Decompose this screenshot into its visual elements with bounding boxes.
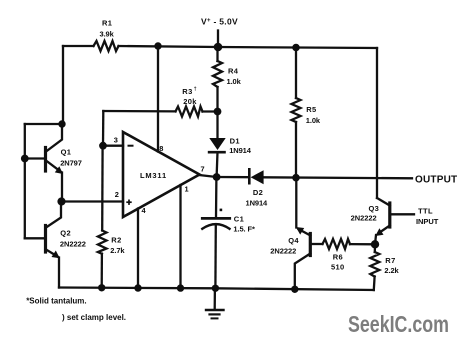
svg-text:2.2k: 2.2k xyxy=(384,266,399,275)
svg-text:2N797: 2N797 xyxy=(60,158,82,167)
svg-text:Q2: Q2 xyxy=(60,229,71,238)
svg-text:R3: R3 xyxy=(182,87,192,96)
svg-text:1: 1 xyxy=(185,184,189,193)
svg-text:2N2222: 2N2222 xyxy=(60,240,86,249)
svg-text:R4: R4 xyxy=(228,67,239,76)
svg-text:8: 8 xyxy=(159,144,163,153)
svg-text:20k: 20k xyxy=(183,97,197,106)
svg-text:) set clamp level.: ) set clamp level. xyxy=(62,313,126,322)
svg-text:1.0k: 1.0k xyxy=(227,77,242,86)
svg-text:C1: C1 xyxy=(234,215,244,224)
svg-text:1N914: 1N914 xyxy=(246,199,269,208)
svg-text:7: 7 xyxy=(201,165,205,174)
svg-text:R1: R1 xyxy=(102,18,112,27)
svg-text:V+ - 5.0V: V+ - 5.0V xyxy=(201,17,238,27)
svg-text:1.0k: 1.0k xyxy=(306,116,321,125)
svg-text:1.5. F*: 1.5. F* xyxy=(233,225,255,234)
svg-text:Q4: Q4 xyxy=(288,236,299,245)
svg-text:TTL: TTL xyxy=(418,207,433,216)
svg-text:Q3: Q3 xyxy=(369,204,380,213)
svg-text:D2: D2 xyxy=(253,188,263,197)
svg-text:4: 4 xyxy=(142,206,147,215)
svg-text:OUTPUT: OUTPUT xyxy=(415,174,457,185)
svg-text:Q1: Q1 xyxy=(61,147,72,156)
svg-text:3: 3 xyxy=(114,135,118,144)
svg-text:R7: R7 xyxy=(385,256,395,265)
svg-text:2: 2 xyxy=(115,190,119,199)
svg-text:D1: D1 xyxy=(230,137,240,146)
svg-text:1N914: 1N914 xyxy=(229,146,252,155)
svg-text:3.9k: 3.9k xyxy=(100,30,115,39)
svg-text:2N2222: 2N2222 xyxy=(270,246,296,255)
svg-text:R2: R2 xyxy=(111,235,121,244)
svg-text:†: † xyxy=(194,87,197,93)
svg-text:R5: R5 xyxy=(306,105,316,114)
svg-text:2N2222: 2N2222 xyxy=(351,214,377,223)
svg-text:INPUT: INPUT xyxy=(416,217,439,226)
svg-text:SeekIC.com: SeekIC.com xyxy=(348,311,449,337)
svg-text:510: 510 xyxy=(331,263,345,272)
svg-text:*Solid tantalum.: *Solid tantalum. xyxy=(26,297,86,306)
svg-text:LM311: LM311 xyxy=(140,171,167,180)
svg-text:R6: R6 xyxy=(333,252,343,261)
svg-text:2.7k: 2.7k xyxy=(110,246,125,255)
